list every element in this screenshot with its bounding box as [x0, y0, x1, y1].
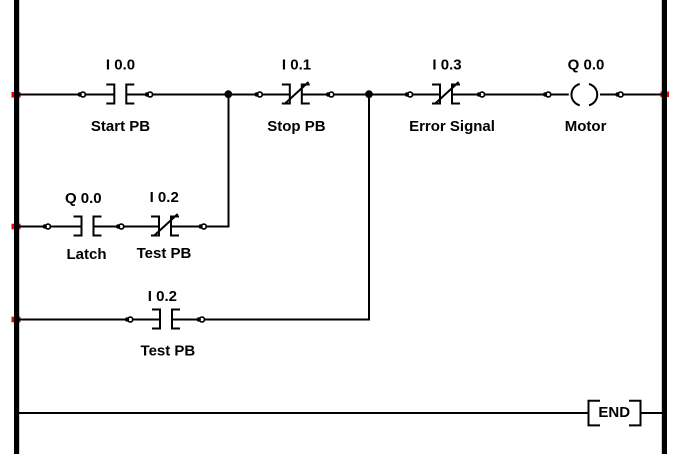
wire: rung 4 rail to END box [19, 412, 589, 414]
coil Q0.0 "Motor" [571, 84, 597, 105]
wire: branch riser rung 2 to junction A [228, 95, 230, 228]
wire: rung 3 contact I0.2 to branch riser [172, 319, 370, 321]
svg-text:Latch: Latch [66, 246, 106, 263]
terminal marker rung2 right of I0.2 [198, 224, 206, 229]
svg-text:Q 0.0: Q 0.0 [568, 57, 605, 74]
wire: rung 1 contact I0.3 to coil Q0.0 [452, 94, 569, 96]
terminal marker rung2 right of Q0.0 [116, 224, 124, 229]
svg-text:I 0.1: I 0.1 [282, 57, 311, 74]
junction B (rung1/rung3 branch) [365, 90, 373, 98]
terminal marker rung1 left of I0.3 [405, 92, 413, 97]
svg-text:Test PB: Test PB [137, 245, 192, 262]
node: right rail tap rung 1 (red) [661, 92, 670, 98]
svg-text:I 0.2: I 0.2 [148, 288, 177, 305]
svg-text:Test PB: Test PB [141, 343, 196, 360]
contact I0.2 "Test PB" rung3 (NO) [152, 309, 180, 330]
svg-text:Error Signal: Error Signal [409, 118, 495, 135]
svg-text:I 0.3: I 0.3 [432, 57, 461, 74]
right power rail [662, 0, 667, 454]
svg-text:Stop PB: Stop PB [267, 118, 325, 135]
wire: rung 1 contact I0.1 to contact I0.3 [302, 94, 440, 96]
svg-text:I 0.2: I 0.2 [150, 189, 179, 206]
terminal marker rung1 right of coil [615, 92, 623, 97]
wire: rung 2 contact I0.2 to branch riser [171, 226, 230, 228]
contact I0.3 "Error Signal" (NC) [432, 82, 460, 105]
node: left rail tap rung 2 (red) [12, 224, 21, 230]
left power rail [14, 0, 19, 454]
wire: rung 4 END box to right rail [641, 412, 663, 414]
terminal marker rung3 left of I0.2 [125, 317, 133, 322]
wire: rung 1 contact I0.0 to contact I0.1 [126, 94, 289, 96]
svg-text:I 0.0: I 0.0 [106, 57, 135, 74]
svg-text:Motor: Motor [565, 118, 607, 135]
terminal marker rung1 left of coil [543, 92, 551, 97]
terminal marker rung1 right of I0.1 [326, 92, 334, 97]
node: left rail tap rung 1 (red) [12, 92, 21, 98]
node: left rail tap rung 3 (red) [12, 317, 21, 323]
svg-text:Q 0.0: Q 0.0 [65, 190, 102, 207]
contact I0.2 "Test PB" rung2 (NC) [151, 214, 179, 237]
wire: rung 3 rail to contact I0.2 [19, 319, 160, 321]
contact Q0.0 "Latch" (NO) [74, 216, 102, 237]
contact I0.1 "Stop PB" (NC) [282, 82, 310, 105]
END coil box [589, 401, 641, 426]
terminal marker rung1 left of I0.0 [77, 92, 85, 97]
svg-text:END: END [598, 404, 630, 421]
terminal marker rung1 right of I0.3 [477, 92, 485, 97]
terminal marker rung1 right of I0.0 [145, 92, 153, 97]
junction A (rung1/rung2 branch) [224, 90, 232, 98]
terminal marker rung2 left of Q0.0 [43, 224, 51, 229]
svg-text:Start PB: Start PB [91, 118, 150, 135]
wire: rung 1 rail to contact I0.0 [19, 94, 114, 96]
contact I0.0 "Start PB" (NO) [106, 84, 134, 105]
terminal marker rung3 right of I0.2 [197, 317, 205, 322]
terminal marker rung1 left of I0.1 [254, 92, 262, 97]
wire: rung 1 coil Q0.0 to right rail [600, 94, 662, 96]
wire: rung 2 rail to contact Q0.0 [19, 226, 82, 228]
wire: rung 2 contact Q0.0 to contact I0.2 [94, 226, 160, 228]
wire: branch riser rung 3 to junction B [368, 95, 370, 321]
